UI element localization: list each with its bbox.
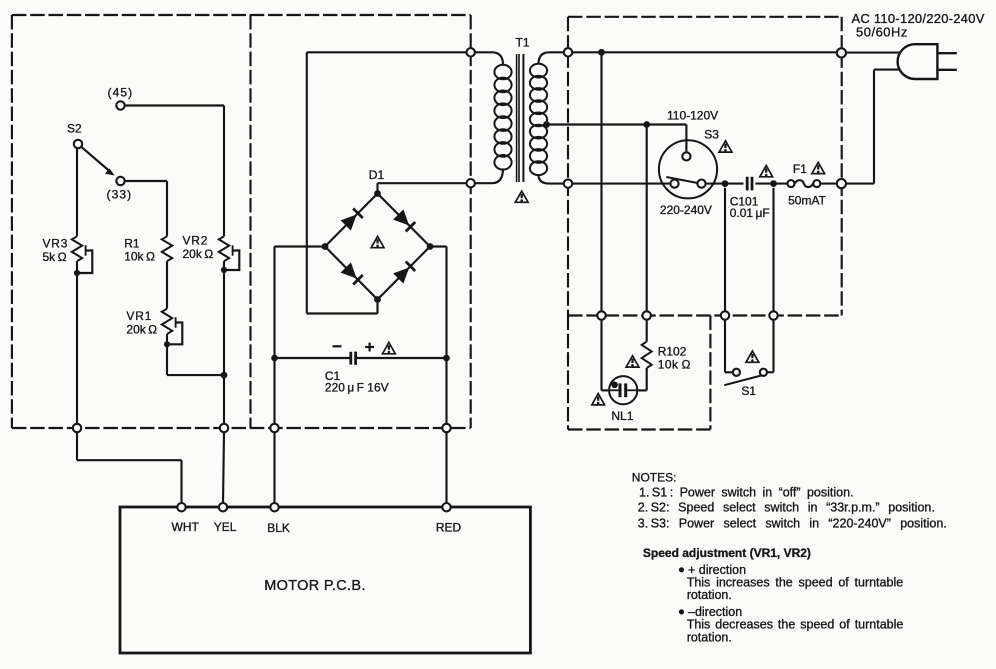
svg-text:T1: T1 (516, 36, 530, 50)
svg-text:S3: S3 (704, 128, 719, 142)
svg-text:RED: RED (436, 521, 462, 535)
svg-text:20k Ω: 20k Ω (183, 247, 214, 261)
svg-text:5k Ω: 5k Ω (43, 250, 67, 264)
svg-text:VR3: VR3 (43, 236, 69, 250)
svg-text:R1: R1 (124, 236, 140, 250)
svg-text:MOTOR P.C.B.: MOTOR P.C.B. (264, 578, 365, 594)
svg-text:20k Ω: 20k Ω (126, 323, 157, 337)
svg-text:R102: R102 (658, 345, 687, 359)
svg-text:NOTES:: NOTES: (632, 471, 677, 485)
svg-text:WHT: WHT (172, 520, 200, 534)
svg-text:YEL: YEL (214, 520, 237, 534)
svg-text:1. S1 : Power switch in “off”: 1. S1 : Power switch in “off” position. (639, 485, 854, 499)
svg-text:rotation.: rotation. (687, 631, 732, 645)
svg-text:VR2: VR2 (183, 233, 209, 247)
svg-text:220 μ F 16V: 220 μ F 16V (325, 381, 389, 395)
svg-text:VR1: VR1 (126, 309, 152, 323)
svg-text:10k Ω: 10k Ω (124, 250, 155, 264)
svg-text:D1: D1 (369, 168, 385, 182)
svg-text:(33): (33) (107, 188, 133, 202)
svg-text:0.01 μF: 0.01 μF (730, 206, 770, 220)
svg-text:S2: S2 (67, 122, 82, 136)
svg-text:3. S3: Power select switch in: 3. S3: Power select switch in “220-240V”… (638, 516, 947, 530)
svg-text:(45): (45) (108, 86, 134, 100)
svg-text:2. S2: Speed select switch in: 2. S2: Speed select switch in “33r.p.m.”… (638, 500, 935, 514)
svg-text:rotation.: rotation. (687, 588, 732, 602)
svg-text:220-240V: 220-240V (660, 203, 712, 217)
svg-text:Speed adjustment (VR1, VR2): Speed adjustment (VR1, VR2) (643, 546, 811, 560)
svg-text:50/60Hz: 50/60Hz (856, 25, 908, 40)
svg-text:F1: F1 (793, 162, 807, 176)
svg-text:NL1: NL1 (611, 409, 633, 423)
svg-text:50mAT: 50mAT (788, 194, 826, 208)
svg-text:This decreases the speed of tu: This decreases the speed of turntable (687, 617, 904, 631)
svg-text:BLK: BLK (267, 521, 290, 535)
svg-text:10k Ω: 10k Ω (658, 358, 691, 372)
svg-text:S1: S1 (741, 384, 756, 398)
svg-text:110-120V: 110-120V (667, 109, 718, 123)
